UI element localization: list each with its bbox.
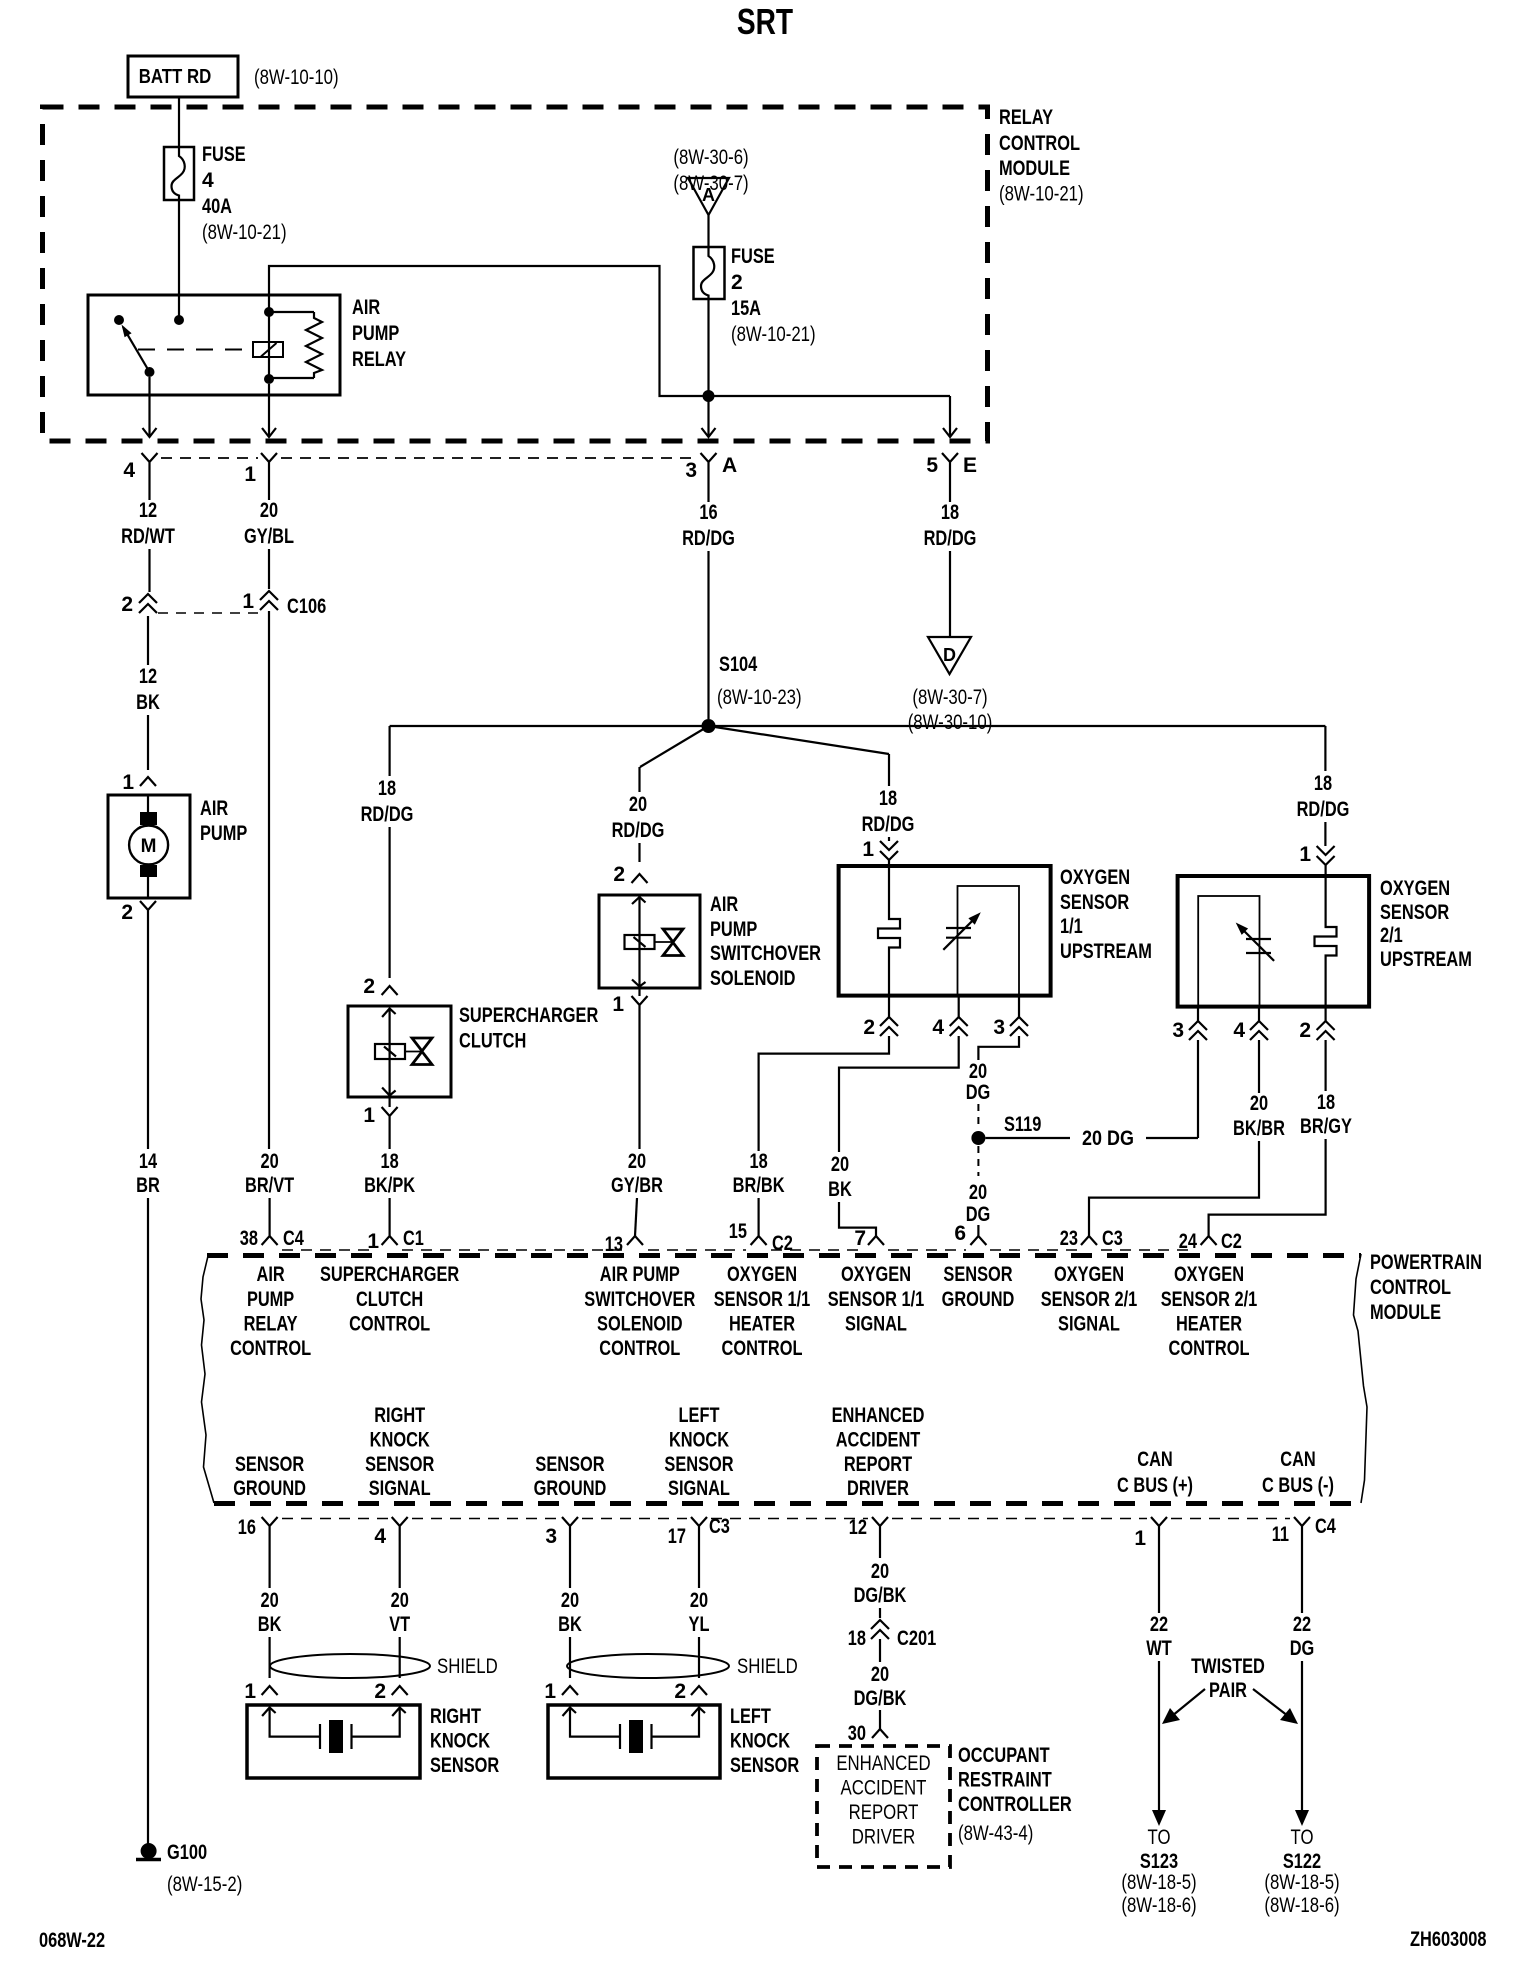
svg-text:4: 4 <box>1233 1019 1245 1042</box>
wire 20 BK/BR to PCM pin 23 C3 <box>1258 1040 1260 1093</box>
svg-text:HEATER: HEATER <box>1176 1313 1242 1336</box>
svg-text:3: 3 <box>993 1016 1005 1039</box>
right knock shield <box>270 1654 430 1678</box>
wire 18 BR/GY to PCM pin 24 C2 <box>1324 1040 1326 1091</box>
right knock sensor <box>247 1705 420 1778</box>
svg-text:WT: WT <box>1146 1637 1172 1660</box>
svg-text:22: 22 <box>1150 1613 1168 1636</box>
right knock sensor pin 2 <box>392 1686 408 1695</box>
svg-text:E: E <box>963 454 977 477</box>
svg-text:SOLENOID: SOLENOID <box>597 1313 683 1336</box>
triangle feed D <box>928 637 971 674</box>
svg-text:23: 23 <box>1060 1227 1078 1250</box>
svg-text:RELAY: RELAY <box>999 106 1053 129</box>
RCM pin 4 <box>142 453 158 477</box>
svg-text:18: 18 <box>750 1150 768 1173</box>
svg-text:AIR: AIR <box>710 893 738 916</box>
svg-text:SIGNAL: SIGNAL <box>668 1477 730 1500</box>
svg-text:12: 12 <box>849 1516 867 1539</box>
PCM pin 17 C3 <box>691 1517 707 1541</box>
svg-text:1: 1 <box>1299 843 1311 866</box>
connector C201 <box>871 1620 889 1639</box>
svg-text:1: 1 <box>367 1230 379 1253</box>
svg-text:SIGNAL: SIGNAL <box>369 1477 431 1500</box>
PCM pin 11 C4 <box>1294 1517 1310 1541</box>
S104 distribution bus <box>390 725 1326 727</box>
oxygen sensor 2/1 sensing cell <box>1198 896 1259 1007</box>
svg-text:2: 2 <box>1299 1019 1311 1042</box>
svg-text:BK/PK: BK/PK <box>364 1174 415 1197</box>
svg-text:C BUS (+): C BUS (+) <box>1117 1474 1193 1497</box>
svg-text:CONTROL: CONTROL <box>349 1313 430 1336</box>
svg-text:DG: DG <box>1290 1637 1315 1660</box>
left knock sensor <box>548 1705 720 1778</box>
svg-text:20: 20 <box>261 1589 279 1612</box>
svg-text:SWITCHOVER: SWITCHOVER <box>710 942 821 965</box>
oxygen sensor 2/1 pin 1 <box>1317 846 1335 865</box>
connector C106 pin 2 <box>139 594 157 613</box>
svg-text:YL: YL <box>689 1613 710 1636</box>
svg-text:3: 3 <box>545 1525 557 1548</box>
svg-text:GROUND: GROUND <box>942 1288 1015 1311</box>
svg-text:C4: C4 <box>283 1227 304 1250</box>
ground G100 <box>141 1843 157 1859</box>
svg-text:ACCIDENT: ACCIDENT <box>841 1777 927 1800</box>
svg-text:SOLENOID: SOLENOID <box>710 967 796 990</box>
svg-text:(8W-18-5): (8W-18-5) <box>1264 1871 1339 1894</box>
powertrain control module dashed box <box>207 1253 1361 1258</box>
wire 22 DG CAN bus minus <box>1301 1541 1303 1613</box>
PCM pin 16 <box>262 1517 278 1541</box>
svg-text:2: 2 <box>363 975 375 998</box>
wire triangle A to fuse 2 <box>707 215 709 247</box>
svg-text:GY/BL: GY/BL <box>244 525 294 548</box>
svg-text:GROUND: GROUND <box>233 1477 306 1500</box>
branch wire 20 RD/DG to solenoid <box>640 726 709 767</box>
svg-text:C BUS (-): C BUS (-) <box>1262 1474 1334 1497</box>
svg-text:1/1: 1/1 <box>1060 915 1083 938</box>
svg-text:SWITCHOVER: SWITCHOVER <box>584 1288 695 1311</box>
svg-text:RD/DG: RD/DG <box>1297 798 1350 821</box>
svg-text:20: 20 <box>261 1150 279 1173</box>
svg-text:ZH603008: ZH603008 <box>1410 1928 1487 1951</box>
svg-text:CONTROL: CONTROL <box>722 1337 803 1360</box>
twisted pair arrow right <box>1253 1689 1288 1716</box>
oxygen sensor 2/1 heater element <box>1315 876 1337 1007</box>
svg-text:SENSOR 2/1: SENSOR 2/1 <box>1161 1288 1258 1311</box>
svg-text:1: 1 <box>363 1104 375 1127</box>
svg-text:(8W-18-6): (8W-18-6) <box>1264 1894 1339 1917</box>
svg-text:2: 2 <box>863 1016 875 1039</box>
svg-text:17: 17 <box>668 1525 686 1548</box>
fuse feed label BATT RD <box>128 56 238 97</box>
svg-text:GROUND: GROUND <box>534 1477 607 1500</box>
wire fuse 4 to relay <box>178 200 180 320</box>
svg-text:(8W-30-7): (8W-30-7) <box>912 686 987 709</box>
svg-text:6: 6 <box>954 1222 966 1245</box>
svg-text:(8W-10-21): (8W-10-21) <box>731 323 816 346</box>
svg-text:1: 1 <box>544 1680 556 1703</box>
svg-text:38: 38 <box>240 1227 258 1250</box>
svg-text:M: M <box>141 836 157 857</box>
svg-text:PUMP: PUMP <box>247 1288 294 1311</box>
svg-text:DG: DG <box>966 1081 991 1104</box>
svg-text:14: 14 <box>139 1150 157 1173</box>
svg-text:FUSE: FUSE <box>731 245 775 268</box>
oxygen sensor 1/1 pin 3 <box>1018 996 1020 1017</box>
PCM pin 6 <box>970 1236 986 1245</box>
svg-text:SRT: SRT <box>737 1 793 42</box>
svg-text:(8W-10-21): (8W-10-21) <box>999 183 1084 206</box>
fuse 2 (15A) <box>694 247 725 299</box>
svg-text:A: A <box>722 454 737 477</box>
svg-text:KNOCK: KNOCK <box>669 1429 729 1452</box>
PCM pin 7 <box>868 1236 884 1245</box>
svg-text:RD/DG: RD/DG <box>361 803 414 826</box>
supercharger clutch pin 1 <box>389 1097 391 1107</box>
relay control module dashed box <box>43 107 988 441</box>
svg-text:SUPERCHARGER: SUPERCHARGER <box>459 1004 598 1027</box>
svg-text:TO: TO <box>1291 1826 1314 1849</box>
svg-text:BR/BK: BR/BK <box>733 1174 785 1197</box>
svg-text:BK: BK <box>136 691 160 714</box>
svg-text:3: 3 <box>1172 1019 1184 1042</box>
air pump pin 1 <box>140 777 156 786</box>
oxygen sensor 2/1 pin 2 <box>1324 1007 1326 1021</box>
svg-text:2: 2 <box>121 593 133 616</box>
wire 20 BR/VT to PCM pin 38 <box>268 611 270 1149</box>
svg-text:C2: C2 <box>772 1232 793 1255</box>
svg-text:BR/VT: BR/VT <box>245 1174 294 1197</box>
svg-text:(8W-10-10): (8W-10-10) <box>254 66 339 89</box>
svg-text:MODULE: MODULE <box>999 157 1070 180</box>
RCM pin 5 E <box>942 453 958 477</box>
svg-text:RIGHT: RIGHT <box>430 1705 481 1728</box>
svg-text:18: 18 <box>381 1150 399 1173</box>
svg-text:S104: S104 <box>719 653 758 676</box>
PCM pin 23 C3 <box>1081 1236 1097 1245</box>
svg-text:C201: C201 <box>897 1627 936 1650</box>
svg-text:30: 30 <box>848 1722 866 1745</box>
wire 20 DG sensor ground upper <box>978 1036 1019 1060</box>
air pump switchover solenoid <box>599 895 700 988</box>
svg-text:PAIR: PAIR <box>1209 1679 1247 1702</box>
wire 18 BK/PK to PCM pin 1 C1 <box>389 1131 391 1149</box>
splice S119 <box>971 1131 985 1145</box>
svg-text:20: 20 <box>561 1589 579 1612</box>
svg-text:11: 11 <box>1272 1523 1290 1546</box>
svg-text:20: 20 <box>391 1589 409 1612</box>
svg-text:BR/GY: BR/GY <box>1300 1115 1352 1138</box>
PCM pin 1 C1 <box>382 1236 398 1245</box>
svg-text:BK: BK <box>558 1613 582 1636</box>
svg-text:20: 20 <box>690 1589 708 1612</box>
svg-text:REPORT: REPORT <box>844 1453 912 1476</box>
air pump switchover solenoid pin 2 <box>632 874 648 883</box>
svg-text:BATT RD: BATT RD <box>139 66 212 88</box>
PCM pin 3 bottom <box>562 1517 578 1541</box>
wire 20 VT right knock signal <box>399 1541 401 1588</box>
oxygen sensor 2/1 upstream <box>1178 876 1370 1007</box>
svg-text:SENSOR: SENSOR <box>730 1754 799 1777</box>
PCM pin 15 C2 <box>751 1236 767 1245</box>
svg-text:40A: 40A <box>202 195 232 218</box>
svg-text:C3: C3 <box>1102 1227 1123 1250</box>
svg-text:UPSTREAM: UPSTREAM <box>1380 948 1472 971</box>
wire 18 RD/DG label (pin E) <box>949 477 951 502</box>
svg-text:OCCUPANT: OCCUPANT <box>958 1744 1050 1767</box>
svg-text:CONTROL: CONTROL <box>1169 1337 1250 1360</box>
svg-text:DG: DG <box>966 1203 991 1226</box>
svg-text:1: 1 <box>242 590 254 613</box>
svg-text:(8W-10-23): (8W-10-23) <box>717 686 802 709</box>
svg-text:20 DG: 20 DG <box>1082 1127 1134 1150</box>
occupant restraint controller pin 30 <box>872 1729 888 1738</box>
wire fuse 2 to pin A <box>707 299 709 437</box>
wire relay contact to pin 4 <box>148 377 150 437</box>
svg-text:BK: BK <box>828 1178 852 1201</box>
svg-text:1: 1 <box>612 993 624 1016</box>
svg-text:CONTROL: CONTROL <box>230 1337 311 1360</box>
wire 14 BR to ground <box>147 925 149 1149</box>
PCM pin 4 bottom <box>392 1517 408 1541</box>
svg-text:OXYGEN: OXYGEN <box>1174 1263 1244 1286</box>
svg-text:20: 20 <box>260 499 278 522</box>
wire relay coil to junction and pin E <box>269 266 709 396</box>
svg-text:LEFT: LEFT <box>679 1404 720 1427</box>
svg-text:DRIVER: DRIVER <box>852 1826 916 1849</box>
svg-text:15: 15 <box>729 1220 747 1243</box>
svg-text:1: 1 <box>122 771 134 794</box>
svg-text:TO: TO <box>1148 1826 1171 1849</box>
supercharger clutch pin 2 <box>382 986 398 995</box>
svg-text:SIGNAL: SIGNAL <box>845 1313 907 1336</box>
svg-text:(8W-10-21): (8W-10-21) <box>202 221 287 244</box>
svg-text:2: 2 <box>613 863 625 886</box>
wire BATT RD to fuse 4 <box>178 97 180 147</box>
svg-text:RESTRAINT: RESTRAINT <box>958 1769 1052 1792</box>
RCM pin 3 A <box>701 453 717 477</box>
svg-text:CAN: CAN <box>1137 1448 1173 1471</box>
svg-text:RD/DG: RD/DG <box>862 813 915 836</box>
svg-text:16: 16 <box>699 501 717 524</box>
oxygen sensor 2/1 pin 4 <box>1258 1007 1260 1021</box>
svg-text:15A: 15A <box>731 297 761 320</box>
svg-text:RELAY: RELAY <box>244 1313 298 1336</box>
svg-text:SENSOR 1/1: SENSOR 1/1 <box>828 1288 925 1311</box>
svg-text:S119: S119 <box>1004 1113 1041 1136</box>
svg-text:SENSOR: SENSOR <box>235 1453 304 1476</box>
svg-text:2/1: 2/1 <box>1380 924 1403 947</box>
PCM pin 13 <box>627 1236 643 1245</box>
svg-text:12: 12 <box>139 665 157 688</box>
svg-text:RD/DG: RD/DG <box>612 819 665 842</box>
svg-text:2: 2 <box>674 1680 686 1703</box>
oxygen sensor 1/1 pin 2 <box>888 996 890 1017</box>
svg-text:(8W-30-7): (8W-30-7) <box>673 172 748 195</box>
left knock sensor pin 2 <box>691 1686 707 1695</box>
svg-text:C106: C106 <box>287 595 326 618</box>
connector C106 link dashes <box>158 612 260 614</box>
svg-text:1: 1 <box>244 463 256 486</box>
svg-text:AIR: AIR <box>352 296 380 319</box>
svg-text:OXYGEN: OXYGEN <box>1054 1263 1124 1286</box>
svg-text:RELAY: RELAY <box>352 348 406 371</box>
junction on fuse 2 wire <box>703 390 715 402</box>
svg-text:C4: C4 <box>1315 1515 1336 1538</box>
wire 12 RD/WT label <box>148 477 150 500</box>
branch wire 18 RD/DG to oxygen sensor 1/1 <box>709 726 890 754</box>
svg-text:HEATER: HEATER <box>729 1313 795 1336</box>
PCM top connector plane dashes <box>282 1249 377 1251</box>
svg-text:RIGHT: RIGHT <box>374 1404 425 1427</box>
svg-text:20: 20 <box>1250 1092 1268 1115</box>
branch wire 18 RD/DG to supercharger clutch <box>389 726 391 776</box>
svg-text:068W-22: 068W-22 <box>39 1929 105 1952</box>
svg-text:CONTROL: CONTROL <box>599 1337 680 1360</box>
svg-text:5: 5 <box>926 454 938 477</box>
svg-text:KNOCK: KNOCK <box>730 1730 790 1753</box>
svg-text:CONTROL: CONTROL <box>999 132 1080 155</box>
branch wire 18 RD/DG to oxygen sensor 2/1 <box>1324 726 1326 771</box>
air pump relay K1 <box>88 295 340 395</box>
svg-text:(8W-15-2): (8W-15-2) <box>167 1873 242 1896</box>
svg-text:PUMP: PUMP <box>200 822 247 845</box>
svg-text:FUSE: FUSE <box>202 143 246 166</box>
wire 16 RD/DG label <box>707 477 709 502</box>
svg-text:C2: C2 <box>1221 1230 1242 1253</box>
wire 20 GY/BL label <box>268 477 270 500</box>
svg-text:RD/DG: RD/DG <box>924 527 977 550</box>
svg-text:20: 20 <box>969 1181 987 1204</box>
PCM pin 38 C4 <box>262 1236 278 1245</box>
svg-text:4: 4 <box>932 1016 944 1039</box>
svg-text:G100: G100 <box>167 1841 207 1864</box>
svg-text:CAN: CAN <box>1280 1448 1316 1471</box>
svg-text:SENSOR: SENSOR <box>1060 891 1129 914</box>
svg-text:DG/BK: DG/BK <box>854 1584 907 1607</box>
svg-text:20: 20 <box>629 793 647 816</box>
svg-text:18: 18 <box>378 777 396 800</box>
svg-text:BR: BR <box>136 1174 160 1197</box>
PCM pin 1 bottom <box>1151 1517 1167 1541</box>
svg-text:16: 16 <box>238 1516 256 1539</box>
svg-text:ENHANCED: ENHANCED <box>836 1752 930 1775</box>
svg-text:SENSOR: SENSOR <box>1380 901 1449 924</box>
svg-text:CONTROL: CONTROL <box>1370 1276 1451 1299</box>
svg-text:(8W-30-10): (8W-30-10) <box>908 711 993 734</box>
wire relay coil to pin 1 <box>268 384 270 437</box>
svg-text:D: D <box>943 645 956 665</box>
svg-text:RD/WT: RD/WT <box>121 525 175 548</box>
svg-text:PUMP: PUMP <box>352 322 399 345</box>
wire 20 DG sensor ground lower <box>977 1146 979 1176</box>
wire 20 YL left knock signal <box>698 1541 700 1588</box>
svg-text:BK: BK <box>258 1613 282 1636</box>
svg-text:1: 1 <box>244 1680 256 1703</box>
svg-text:AIR: AIR <box>200 797 228 820</box>
svg-text:SENSOR 1/1: SENSOR 1/1 <box>714 1288 811 1311</box>
wire 12 BK label <box>147 616 149 665</box>
svg-text:22: 22 <box>1293 1613 1311 1636</box>
wire 20 DG from S119 to oxygen sensor 2/1 pin 3 <box>985 1137 1070 1139</box>
svg-text:AIR: AIR <box>257 1263 285 1286</box>
svg-text:12: 12 <box>139 499 157 522</box>
svg-text:3: 3 <box>685 459 697 482</box>
svg-text:GY/BR: GY/BR <box>611 1174 663 1197</box>
wire 18 BR/BK to PCM pin 15 C2 <box>759 1036 889 1151</box>
svg-text:OXYGEN: OXYGEN <box>1380 877 1450 900</box>
svg-text:OXYGEN: OXYGEN <box>727 1263 797 1286</box>
connector C106 pin 1 <box>260 591 278 610</box>
svg-text:20: 20 <box>831 1153 849 1176</box>
svg-text:SENSOR 2/1: SENSOR 2/1 <box>1041 1288 1138 1311</box>
air pump motor <box>108 795 190 898</box>
svg-text:(8W-30-6): (8W-30-6) <box>673 146 748 169</box>
svg-text:ENHANCED: ENHANCED <box>832 1404 925 1427</box>
svg-text:SUPERCHARGER: SUPERCHARGER <box>320 1263 459 1286</box>
svg-text:1: 1 <box>1134 1527 1146 1550</box>
twisted pair arrow left <box>1172 1689 1205 1716</box>
svg-text:SHIELD: SHIELD <box>737 1655 798 1678</box>
svg-text:(8W-18-6): (8W-18-6) <box>1121 1894 1196 1917</box>
right knock sensor pin 1 <box>262 1686 278 1695</box>
wire 22 WT CAN bus plus <box>1158 1541 1160 1613</box>
PCM pin 12 <box>872 1517 888 1541</box>
svg-text:SENSOR: SENSOR <box>365 1453 434 1476</box>
air pump pin 2 <box>140 901 156 925</box>
oxygen sensor 2/1 pin 3 <box>1197 1007 1199 1021</box>
oxygen sensor 1/1 pin 1 <box>880 841 898 860</box>
svg-text:1: 1 <box>862 838 874 861</box>
svg-text:13: 13 <box>605 1233 623 1256</box>
svg-text:MODULE: MODULE <box>1370 1301 1441 1324</box>
svg-text:18: 18 <box>848 1627 866 1650</box>
svg-text:18: 18 <box>1317 1091 1335 1114</box>
svg-text:CLUTCH: CLUTCH <box>356 1288 423 1311</box>
svg-text:20: 20 <box>871 1663 889 1686</box>
oxygen sensor 1/1 pin 4 <box>958 996 960 1017</box>
PCM bottom connector plane dashes <box>282 1518 388 1520</box>
svg-text:SIGNAL: SIGNAL <box>1058 1313 1120 1336</box>
svg-text:KNOCK: KNOCK <box>370 1429 430 1452</box>
svg-text:18: 18 <box>1314 772 1332 795</box>
oxygen sensor 1/1 upstream <box>839 866 1051 996</box>
svg-text:2: 2 <box>121 901 133 924</box>
svg-text:4: 4 <box>374 1525 386 1548</box>
svg-text:(8W-18-5): (8W-18-5) <box>1121 1871 1196 1894</box>
svg-text:RD/DG: RD/DG <box>682 527 735 550</box>
svg-text:CLUTCH: CLUTCH <box>459 1030 526 1053</box>
svg-text:4: 4 <box>123 459 135 482</box>
wire 20 DG/BK upper <box>879 1541 881 1558</box>
left knock shield <box>567 1654 729 1678</box>
svg-text:S123: S123 <box>1140 1850 1178 1873</box>
svg-text:KNOCK: KNOCK <box>430 1730 490 1753</box>
svg-text:C1: C1 <box>403 1227 424 1250</box>
svg-text:LEFT: LEFT <box>730 1705 771 1728</box>
left knock sensor pin 1 <box>562 1686 578 1695</box>
fuse 4 (40A) <box>164 147 194 200</box>
svg-text:20: 20 <box>871 1560 889 1583</box>
svg-text:DG/BK: DG/BK <box>854 1687 907 1710</box>
svg-text:PUMP: PUMP <box>710 918 757 941</box>
svg-text:2: 2 <box>374 1680 386 1703</box>
svg-text:CONTROLLER: CONTROLLER <box>958 1793 1072 1816</box>
svg-text:18: 18 <box>879 787 897 810</box>
svg-text:SENSOR: SENSOR <box>664 1453 733 1476</box>
svg-text:(8W-43-4): (8W-43-4) <box>958 1822 1033 1845</box>
